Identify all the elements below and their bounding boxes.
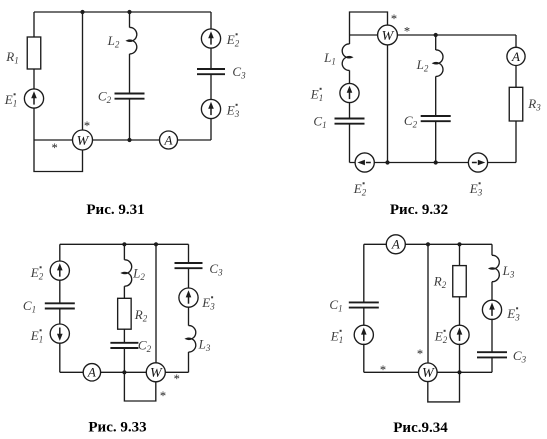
- svg-text:L3: L3: [198, 337, 211, 354]
- source E1 (9.31): [24, 89, 43, 108]
- wire branch 3 upper (9.32): [435, 35, 437, 50]
- wire C3 to E3 (9.31): [210, 74, 212, 99]
- wire wattmeter voltage loop (9.33): [124, 372, 155, 401]
- node top junction branch 3 (9.31): [127, 10, 131, 14]
- svg-text:*: *: [380, 363, 386, 377]
- svg-text:E3: E3: [506, 306, 520, 323]
- wire C1 to E1 (9.34): [363, 308, 365, 326]
- wire L3 to E3 (9.34): [491, 282, 493, 301]
- inductor L2 (9.32): [433, 50, 443, 76]
- wattmeter W (9.31): [73, 130, 93, 150]
- wire top bus (9.33): [60, 243, 189, 245]
- wire E3 to C3 (9.34): [491, 319, 493, 353]
- resistor R2 (9.33): [118, 298, 131, 329]
- wire E3 to bottom (9.31): [210, 119, 212, 141]
- svg-text:E2: E2: [30, 265, 44, 282]
- ammeter A (9.33): [83, 364, 100, 381]
- source E3 (9.31): [201, 99, 220, 118]
- resistor R1: [27, 37, 41, 69]
- svg-text:W: W: [422, 366, 435, 381]
- capacitor C3 (9.34): [477, 352, 507, 357]
- svg-text:A: A: [511, 49, 520, 64]
- wire right branch upper (9.33): [188, 244, 190, 263]
- svg-text:C1: C1: [23, 298, 36, 315]
- wire E1 to C1 (9.32): [349, 103, 351, 119]
- wire E1 to bottom (9.33): [59, 343, 61, 373]
- capacitor C3 (9.31): [197, 69, 225, 74]
- svg-text:Рис.9.34: Рис.9.34: [393, 420, 448, 436]
- wire C2 to bottom (9.33): [123, 348, 125, 372]
- source E3 (9.34): [482, 300, 501, 319]
- wattmeter W (9.32): [378, 25, 398, 45]
- svg-text:L2: L2: [416, 57, 429, 74]
- node top junction branch 2 (9.34): [426, 242, 430, 246]
- wire E2 to bottom (9.34): [459, 344, 461, 373]
- svg-text:*: *: [404, 24, 410, 38]
- source E1 (9.32): [340, 83, 359, 102]
- wire branch 2 stem (9.34): [427, 244, 429, 372]
- wire bottom bus (9.33): [60, 371, 189, 373]
- svg-text:E3: E3: [469, 181, 483, 198]
- wire E3 to L3 (9.33): [188, 307, 190, 326]
- svg-text:Рис. 9.33: Рис. 9.33: [88, 420, 146, 436]
- capacitor C2 (9.33): [110, 343, 138, 348]
- wire right branch upper (9.31): [210, 12, 212, 29]
- source E1 (9.34): [354, 325, 373, 344]
- wire L2 to C2 (9.31): [129, 54, 131, 94]
- wire right branch (9.32): [515, 35, 517, 163]
- wire R2 to E2 (9.34): [459, 297, 461, 326]
- wire L1 to E1 (9.32): [349, 70, 351, 83]
- node bottom junction stem (9.32): [385, 160, 389, 164]
- wire branch 2 vertical (9.31): [82, 12, 84, 140]
- source E2 (9.33): [50, 261, 69, 280]
- wire top bus (9.32): [350, 34, 517, 36]
- svg-text:R1: R1: [5, 49, 18, 66]
- wire wattmeter voltage loop (9.31): [34, 140, 83, 172]
- wire bottom bus (9.32): [350, 162, 517, 164]
- svg-text:*: *: [160, 389, 166, 403]
- node bottom junction branch 2 (9.33): [122, 370, 126, 374]
- wire L3 to bottom (9.33): [188, 352, 190, 372]
- svg-text:R3: R3: [527, 96, 541, 113]
- svg-text:W: W: [77, 134, 90, 149]
- resistor R2 (9.34): [453, 266, 467, 297]
- svg-text:A: A: [87, 365, 96, 380]
- wire wattmeter voltage loop (9.32): [350, 12, 388, 35]
- svg-text:*: *: [391, 12, 397, 26]
- svg-text:*: *: [84, 119, 90, 133]
- svg-text:L2: L2: [132, 266, 145, 283]
- wire L2 to C2 (9.32): [435, 76, 437, 116]
- wire bottom bus (9.31): [34, 139, 211, 141]
- wire E2 to C3 (9.31): [210, 48, 212, 69]
- node top junction branch 3 (9.33): [154, 242, 158, 246]
- svg-text:Рис. 9.31: Рис. 9.31: [86, 202, 144, 218]
- node top junction branch 2 (9.33): [122, 242, 126, 246]
- svg-text:C3: C3: [513, 348, 527, 365]
- svg-text:E2: E2: [353, 181, 367, 198]
- capacitor C1 (9.33): [45, 303, 75, 308]
- source E2 (9.31): [201, 29, 220, 48]
- wire E1 to bottom node (9.31): [33, 108, 35, 140]
- svg-text:E3: E3: [226, 103, 240, 120]
- wire branch 2 upper (9.33): [123, 244, 125, 259]
- wire C2 to bottom (9.31): [129, 99, 131, 140]
- wire right branch upper (9.34): [491, 244, 493, 255]
- svg-text:A: A: [164, 132, 173, 147]
- wire E2 to C1 (9.33): [59, 280, 61, 304]
- node top junction branch 2 (9.31): [80, 10, 84, 14]
- svg-text:A: A: [391, 237, 400, 252]
- svg-text:C2: C2: [98, 89, 112, 106]
- svg-text:C2: C2: [404, 113, 418, 130]
- inductor L2 (9.31): [127, 27, 137, 53]
- svg-text:C3: C3: [209, 261, 223, 278]
- wire branch 3 vertical (9.33): [155, 244, 157, 372]
- node bottom junction branch 3 (9.34): [457, 370, 461, 374]
- inductor L3 (9.33): [186, 326, 196, 352]
- wire left branch upper (9.34): [363, 244, 365, 302]
- node bottom junction branch 3 (9.32): [434, 160, 438, 164]
- source E1 (9.33): [50, 324, 69, 343]
- wire top bus (9.31): [34, 11, 211, 13]
- wattmeter W (9.33): [146, 363, 165, 382]
- wire R1 to E1 (9.31): [33, 69, 35, 89]
- wattmeter W (9.34): [419, 363, 438, 382]
- circuit Рис.9.34: [329, 235, 526, 436]
- svg-text:L3: L3: [502, 263, 515, 280]
- svg-text:E3: E3: [201, 295, 215, 312]
- inductor L1 (9.32): [342, 44, 352, 70]
- wire bottom bus (9.34): [364, 371, 492, 373]
- wire L2 to R2 (9.33): [123, 286, 125, 298]
- capacitor C2 (9.31): [115, 94, 145, 99]
- capacitor C3 (9.33): [175, 263, 203, 268]
- svg-text:*: *: [174, 372, 180, 386]
- wire C2 to bottom (9.32): [435, 121, 437, 162]
- ammeter A (9.31): [160, 131, 178, 149]
- svg-text:W: W: [382, 29, 395, 44]
- source E2 (9.32): [355, 153, 374, 172]
- wire wattmeter voltage loop (9.34): [428, 372, 460, 402]
- svg-text:C2: C2: [138, 338, 152, 355]
- wire branch 3 upper (9.34): [459, 244, 461, 265]
- ammeter A (9.34): [386, 235, 405, 254]
- svg-text:L2: L2: [107, 33, 120, 50]
- svg-text:C3: C3: [232, 64, 246, 81]
- node top junction branch 3 (9.34): [457, 242, 461, 246]
- inductor L2 (9.33): [122, 260, 132, 286]
- svg-text:E2: E2: [434, 329, 448, 346]
- wire top bus (9.34): [364, 243, 492, 245]
- node top junction branch 3 (9.32): [434, 33, 438, 37]
- svg-text:E2: E2: [226, 32, 240, 49]
- circuit Рис. 9.31: [4, 10, 246, 218]
- ammeter A (9.32): [507, 47, 525, 65]
- wire left branch upper (9.33): [59, 244, 61, 261]
- svg-text:*: *: [51, 141, 57, 155]
- svg-text:R2: R2: [134, 307, 148, 324]
- circuit Рис. 9.32: [310, 12, 541, 218]
- wire C1 to E1 (9.33): [59, 309, 61, 325]
- wire C3 to E3 (9.33): [188, 268, 190, 288]
- source E3 (9.33): [179, 288, 198, 307]
- resistor R3 (9.32): [509, 87, 523, 121]
- svg-text:Рис. 9.32: Рис. 9.32: [390, 202, 448, 218]
- node bottom junction branch 3 (9.31): [127, 138, 131, 142]
- source E3 (9.32): [468, 153, 487, 172]
- wire left branch upper (9.32): [349, 35, 351, 44]
- source E2 (9.34): [450, 325, 469, 344]
- wire left branch upper (9.31): [33, 12, 35, 37]
- svg-text:*: *: [417, 347, 423, 361]
- svg-text:W: W: [150, 366, 163, 381]
- wire C1 to bottom (9.32): [349, 124, 351, 163]
- svg-text:R2: R2: [433, 274, 447, 291]
- wire E1 to bottom (9.34): [363, 344, 365, 373]
- svg-text:L1: L1: [323, 50, 336, 67]
- wire R2 to C2 (9.33): [123, 329, 125, 343]
- capacitor C1 (9.34): [349, 302, 379, 307]
- wire C3 to bottom (9.34): [491, 357, 493, 372]
- svg-text:C1: C1: [313, 114, 326, 131]
- svg-text:C1: C1: [329, 297, 342, 314]
- wire branch 3 upper (9.31): [129, 12, 131, 28]
- inductor L3 (9.34): [490, 255, 500, 281]
- capacitor C2 (9.32): [421, 116, 451, 121]
- capacitor C1 (9.32): [335, 119, 365, 124]
- circuit Рис. 9.33: [23, 242, 223, 435]
- wire wattmeter stem (9.32): [387, 35, 389, 163]
